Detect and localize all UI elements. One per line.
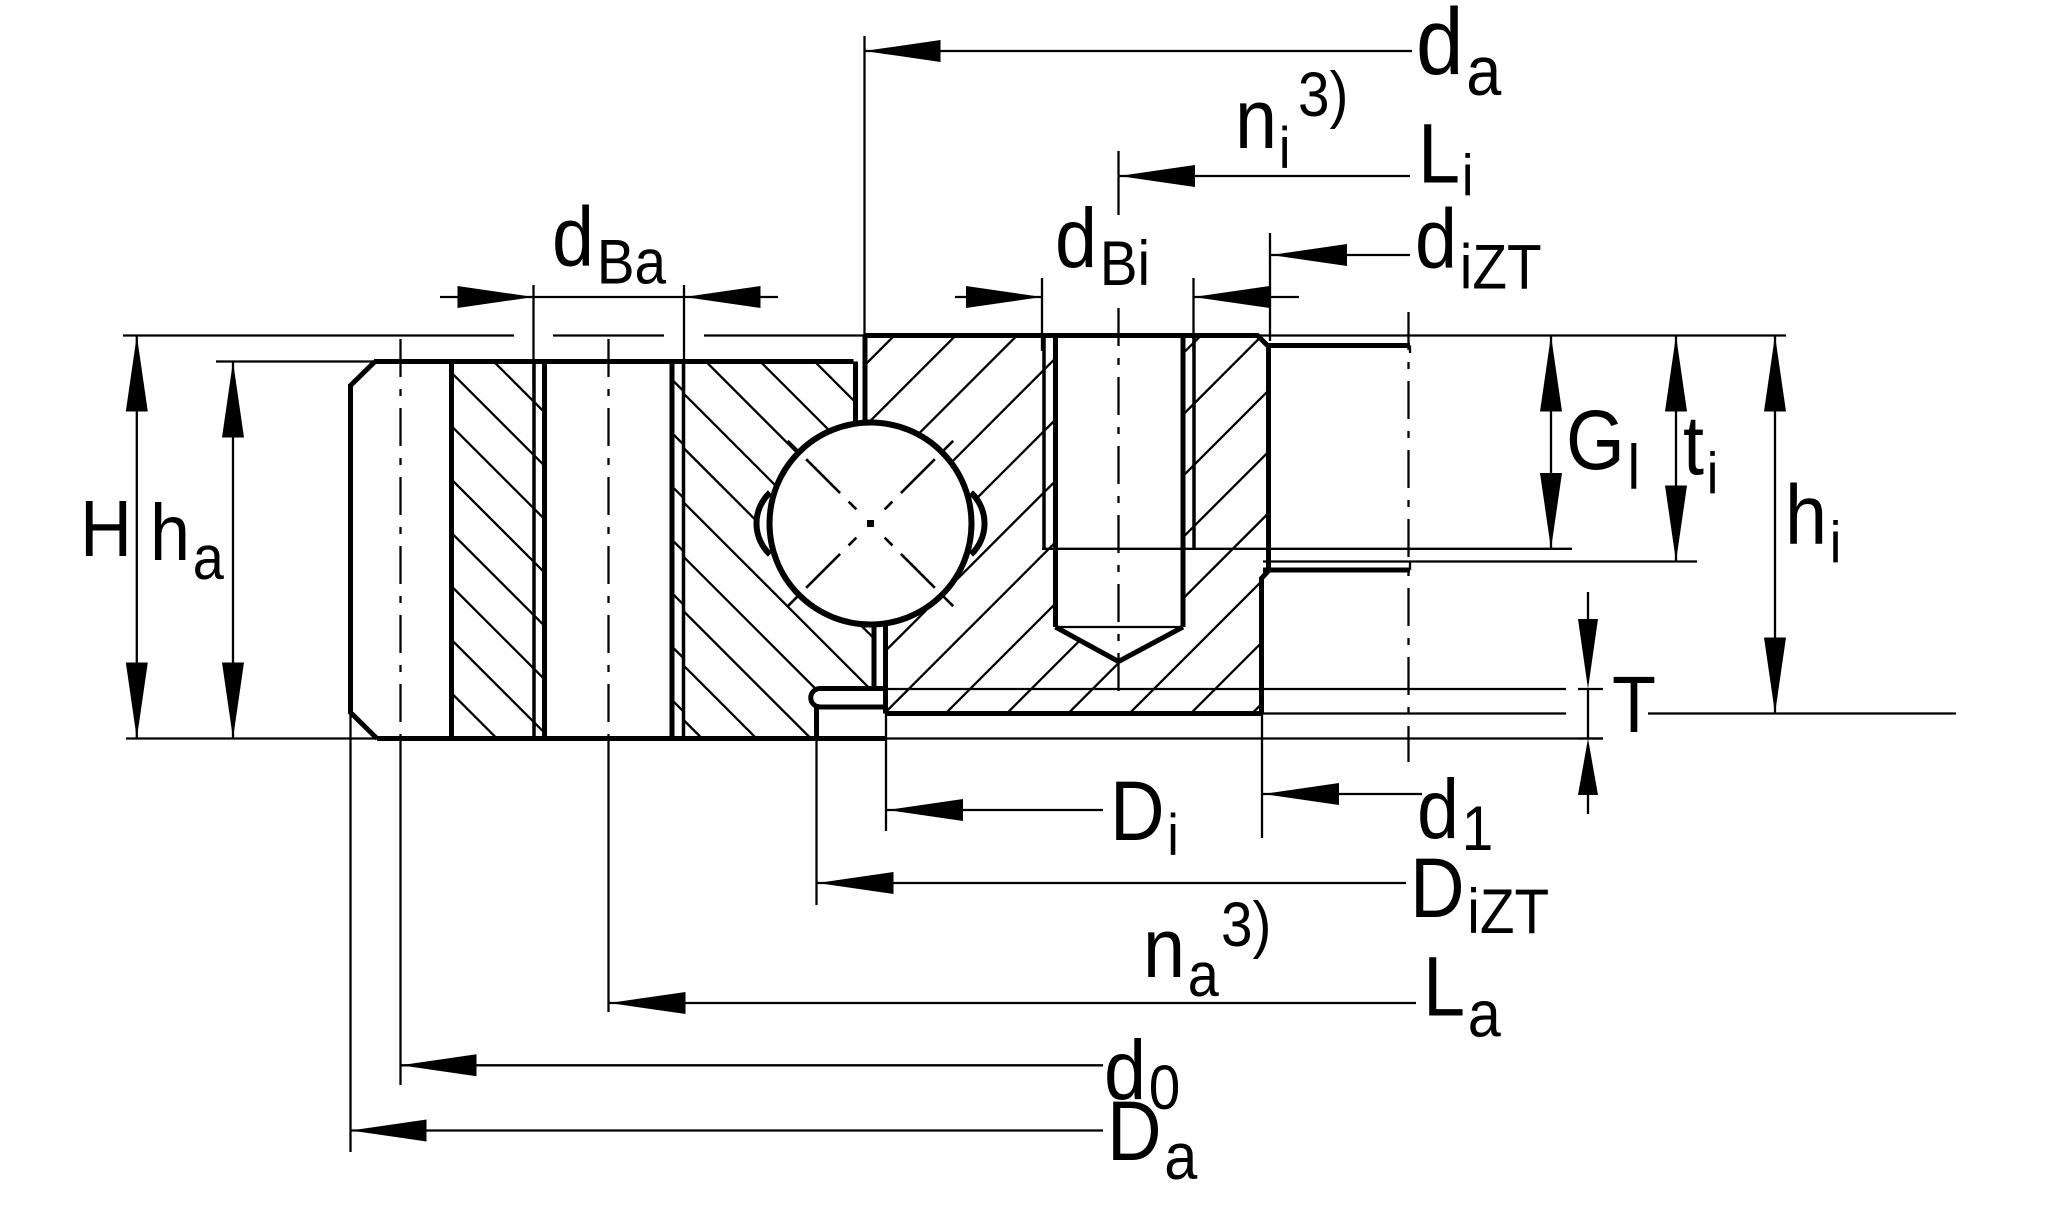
outer ring bottom face [377, 736, 887, 741]
Di extension [885, 714, 887, 832]
gear root line [1266, 346, 1271, 571]
ti bottom reference [1263, 560, 1697, 562]
La dimension [610, 1002, 1417, 1004]
svg-text:H: H [80, 485, 132, 574]
outer ring bottom-left chamfer [350, 712, 377, 739]
H dimension [136, 336, 138, 739]
dBa extension ticks [532, 285, 534, 390]
dBi extension ticks [1041, 278, 1043, 351]
inner ring bore line [1259, 579, 1264, 714]
T dimension [1587, 592, 1589, 620]
Li dimension [1119, 175, 1410, 177]
lip top edge [820, 686, 886, 691]
DiZT dimension [818, 882, 1407, 884]
diZT extension tick [1269, 233, 1271, 341]
outer thread major line left [532, 362, 536, 739]
svg-text:3): 3) [1221, 889, 1271, 959]
Da extension [349, 714, 351, 1152]
relief notch vertical [814, 704, 819, 739]
bottom slot right wall [883, 624, 888, 714]
ha dimension [232, 362, 234, 739]
d1 extension [1261, 714, 1263, 839]
d0 dimension [401, 1064, 1104, 1066]
inner ring top chamfer [1257, 335, 1269, 347]
drill cone [1056, 627, 1184, 662]
inner thread major lines [1042, 338, 1046, 549]
ha top reference line [216, 360, 374, 362]
inner ring top face [865, 333, 1258, 338]
outer ring section hatching [684, 362, 874, 739]
outer thread minor line right [670, 362, 675, 739]
svg-text:3): 3) [1298, 59, 1348, 129]
gear pitch centerline [1407, 312, 1409, 762]
outer ring hole centerline [607, 339, 609, 739]
outer thread minor line left [542, 362, 547, 739]
lip bottom edge [820, 705, 884, 710]
top slot right wall [863, 336, 868, 424]
lip rounded end [811, 689, 820, 708]
DiZT extension [815, 739, 817, 906]
outer ring left face [348, 384, 353, 714]
ball [770, 423, 972, 625]
outer ring top face [374, 359, 854, 364]
T label line [1648, 712, 1956, 714]
svg-text:T: T [1612, 661, 1656, 750]
inner ring bottom face under gear (thin) [1262, 712, 1567, 714]
Di dimension [887, 809, 1103, 811]
d0 extension [399, 739, 401, 1086]
Gl bottom reference (thread length) [1042, 548, 1572, 550]
inner ring hole centerline [1117, 308, 1119, 700]
Li extension tick [1117, 151, 1119, 215]
gear tooth bottom edge [1263, 568, 1410, 573]
gear rim boundary line [449, 360, 454, 741]
da extension [863, 36, 865, 336]
top reference line (da/H level) [123, 334, 514, 336]
dBi dimension [955, 296, 1042, 298]
T top reference line [886, 688, 1567, 690]
ball diagonal center lines [871, 441, 954, 524]
inner ring section hatching [865, 336, 1268, 714]
gear tooth top edge [1268, 343, 1411, 348]
La extension [607, 739, 609, 1013]
raceway arc right [971, 493, 985, 555]
drill flat bottom [1056, 626, 1184, 628]
bottom slot left wall [872, 623, 877, 689]
bottom reference line [126, 737, 377, 739]
da dimension [865, 50, 1413, 52]
d1 dimension [1263, 793, 1422, 795]
outer gear rim centerline [399, 339, 401, 739]
hi dimension [1774, 336, 1776, 714]
Gl dimension [1550, 336, 1552, 550]
Da dimension [351, 1129, 1104, 1131]
outer ring top-left chamfer [350, 362, 375, 387]
inner thread minor lines [1053, 336, 1058, 628]
dBa dimension [440, 296, 534, 298]
outer thread major line right [682, 362, 686, 739]
inner ring bottom face [886, 711, 1262, 716]
top slot left wall [853, 362, 858, 425]
diZT dimension [1271, 254, 1410, 256]
inner ring bore chamfer [1261, 570, 1270, 580]
outer ring thread zone hatching [452, 362, 684, 738]
ti dimension [1675, 336, 1677, 562]
raceway arc left [756, 493, 770, 555]
